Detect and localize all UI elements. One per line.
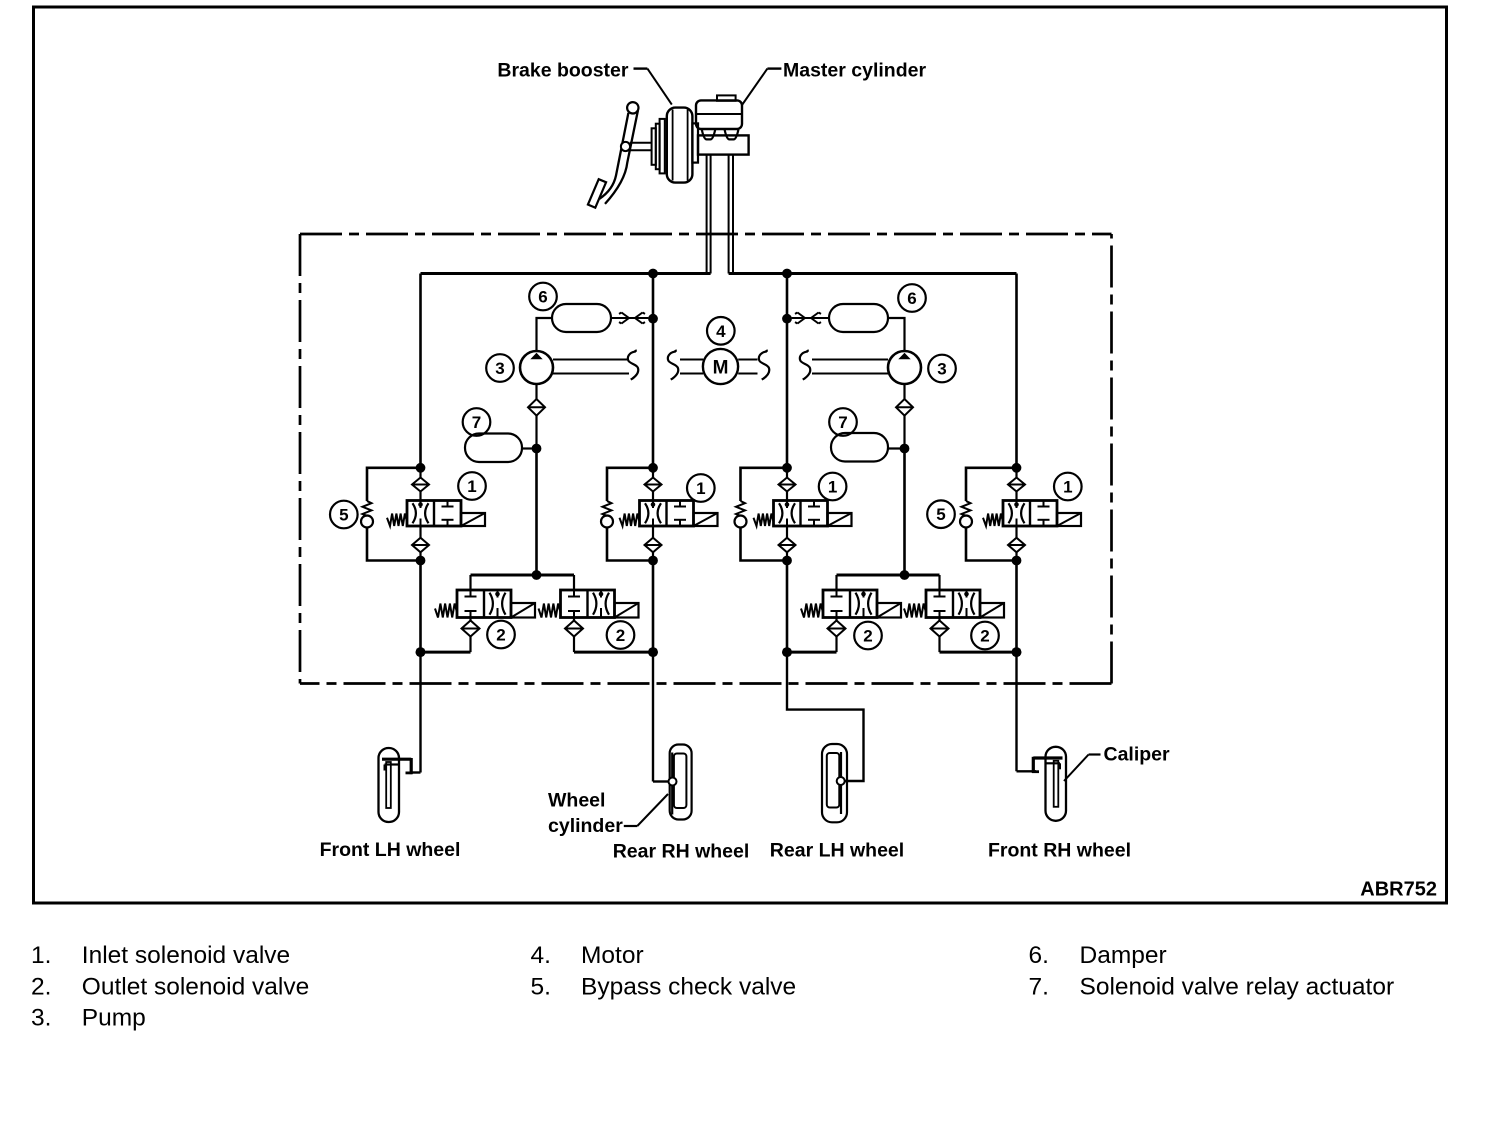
brake booster — [652, 108, 698, 183]
inlet solenoid valve (1) Front RH body — [983, 501, 1081, 527]
ref (2) a — [487, 621, 515, 649]
bypass check valve (5) Rear RH branch — [601, 468, 653, 561]
master cylinder body — [698, 130, 749, 155]
label: Rear LH wheel — [770, 840, 904, 862]
svg-text:Master cylinder: Master cylinder — [783, 60, 926, 82]
wire: Front RH to caliper — [1017, 652, 1037, 771]
svg-text:6.: 6. — [1029, 942, 1049, 969]
svg-text:Front RH wheel: Front RH wheel — [988, 840, 1131, 862]
ref (1) Front RH — [1054, 473, 1082, 501]
damper (6) right — [792, 304, 888, 332]
Front LH wheel with caliper — [379, 748, 413, 822]
outlet solenoid valve (2) Front RH top branch — [905, 575, 940, 590]
motor shaft left segment — [553, 351, 703, 380]
ref (5) left — [330, 501, 358, 529]
wire: secondary circuit supply header — [729, 269, 1017, 279]
ref (2) d — [971, 622, 999, 650]
outlet solenoid valve (2) Front LH top branch — [471, 575, 537, 590]
svg-text:6: 6 — [907, 289, 916, 308]
svg-text:4.: 4. — [531, 942, 551, 969]
outlet solenoid valve (2) Rear RH bottom branch with filter — [565, 618, 658, 657]
filter bottom Rear LH — [779, 526, 796, 565]
master cylinder reservoir — [696, 95, 742, 129]
filter bottom Rear RH — [645, 526, 662, 565]
ref (6) right — [898, 284, 926, 312]
outlet solenoid valve (2) Rear LH bottom branch with filter — [782, 618, 845, 657]
svg-text:3: 3 — [937, 360, 946, 379]
wire: Rear LH to wheel cylinder — [787, 652, 864, 781]
svg-text:Rear RH wheel: Rear RH wheel — [613, 841, 750, 863]
label: Master cylinder — [742, 60, 926, 106]
filter bottom Front LH — [412, 526, 429, 565]
damper (6) left — [552, 304, 648, 332]
ref (1) Front LH — [458, 472, 486, 500]
wire: Rear RH below inlet — [648, 561, 658, 657]
svg-text:2: 2 — [863, 627, 872, 646]
svg-text:2: 2 — [616, 626, 625, 645]
pump (3) left — [520, 351, 553, 384]
svg-text:1: 1 — [696, 479, 705, 498]
ref (4) — [707, 317, 735, 345]
ABS actuator unit boundary (dash-dot box) — [300, 234, 1112, 684]
svg-text:cylinder: cylinder — [548, 815, 623, 837]
label: Front LH wheel — [320, 839, 461, 861]
wire: Front LH to caliper — [412, 652, 421, 772]
figure code ABR752 — [1360, 879, 1437, 901]
master cylinder outlet pipes — [707, 155, 733, 274]
svg-text:6: 6 — [538, 288, 547, 307]
inlet solenoid valve (1) Front RH: node junction top — [1012, 463, 1022, 473]
inlet solenoid valve (1) Front LH body — [387, 501, 485, 527]
outlet solenoid valve (2) Front RH bottom branch with filter — [931, 618, 1022, 657]
ref (7) right — [829, 408, 857, 436]
label: Caliper — [1064, 744, 1170, 782]
brake pedal — [588, 102, 639, 208]
ref (3) left — [486, 354, 514, 382]
push rod — [630, 143, 652, 151]
svg-text:7: 7 — [472, 413, 481, 432]
label: Brake booster — [497, 60, 671, 105]
bypass check valve (5) Front RH branch — [960, 468, 1017, 561]
ref (2) c — [854, 622, 882, 650]
svg-text:Bypass check valve: Bypass check valve — [581, 973, 796, 1000]
ref (2) b — [607, 621, 635, 649]
svg-text:7.: 7. — [1029, 973, 1049, 1000]
svg-text:Wheel: Wheel — [548, 790, 605, 812]
svg-text:3: 3 — [495, 359, 504, 378]
Front RH wheel with caliper — [1032, 747, 1066, 821]
ref (1) Rear LH — [819, 473, 847, 501]
Rear RH wheel with wheel cylinder — [669, 745, 692, 820]
wire: Front RH wheel line — [1015, 274, 1018, 468]
ref (1) Rear RH — [687, 474, 715, 502]
svg-text:M: M — [713, 358, 729, 379]
border frame — [34, 7, 1447, 903]
outlet solenoid valve (2) Front LH bottom branch with filter — [416, 618, 480, 657]
inlet solenoid valve (1) Rear RH: node junction top — [648, 463, 658, 473]
motor (4) M — [703, 349, 738, 384]
solenoid valve relay actuator (7) left reservoir — [465, 434, 541, 463]
svg-text:Brake booster: Brake booster — [497, 60, 629, 82]
filter top Rear LH — [779, 468, 796, 501]
svg-text:Solenoid valve relay actuator: Solenoid valve relay actuator — [1080, 973, 1395, 1000]
outlet solenoid valve (2) Rear LH body — [801, 590, 901, 618]
svg-text:Damper: Damper — [1080, 942, 1167, 969]
wire: primary circuit supply header — [421, 269, 711, 279]
svg-text:4: 4 — [716, 322, 726, 341]
label: Wheel cylinder — [548, 790, 668, 838]
legend — [31, 942, 1394, 1032]
Rear LH wheel with wheel cylinder — [822, 744, 847, 822]
svg-text:2.: 2. — [31, 973, 51, 1000]
wire: damper to pump left — [537, 318, 553, 351]
filter top Front RH — [1008, 468, 1025, 501]
wire: Rear LH wheel line — [782, 274, 792, 468]
pump outlet check valve right — [896, 384, 913, 449]
svg-text:Motor: Motor — [581, 942, 644, 969]
inlet solenoid valve (1) Rear RH body — [620, 501, 718, 527]
inlet solenoid valve (1) Rear LH: node junction top — [782, 463, 792, 473]
svg-text:Rear LH wheel: Rear LH wheel — [770, 840, 904, 862]
pump outlet check valve left — [528, 384, 545, 449]
svg-text:Front LH wheel: Front LH wheel — [320, 839, 461, 861]
wire: Rear RH wheel line — [648, 274, 658, 468]
wire: Rear LH below inlet — [782, 561, 792, 657]
svg-text:2: 2 — [496, 626, 505, 645]
motor shaft right segment — [738, 351, 888, 380]
svg-text:5: 5 — [936, 505, 945, 524]
svg-text:Outlet solenoid valve: Outlet solenoid valve — [82, 973, 309, 1000]
filter top Front LH — [412, 468, 429, 501]
svg-text:5: 5 — [339, 506, 348, 525]
ref (6) left — [529, 283, 557, 311]
svg-text:ABR752: ABR752 — [1360, 879, 1437, 901]
outlet solenoid valve (2) Front LH body — [435, 590, 535, 618]
bypass check valve (5) Rear LH branch — [735, 468, 788, 561]
svg-text:2: 2 — [980, 627, 989, 646]
ref (7) left — [463, 408, 491, 436]
wire: Rear RH to wheel cylinder — [653, 652, 669, 781]
inlet solenoid valve (1) Front LH: node junction top — [416, 463, 426, 473]
wire: Front LH wheel line — [419, 274, 422, 468]
svg-text:1: 1 — [467, 477, 476, 496]
wire: damper to pump right — [888, 318, 905, 351]
label: Front RH wheel — [988, 840, 1131, 862]
svg-text:7: 7 — [838, 413, 847, 432]
wire: pump suction line left — [532, 449, 542, 580]
svg-text:Caliper: Caliper — [1104, 744, 1171, 766]
label: Rear RH wheel — [613, 841, 750, 863]
outlet solenoid valve (2) Front RH body — [904, 590, 1004, 618]
ref (5) right — [927, 500, 955, 528]
filter top Rear RH — [645, 468, 662, 501]
wire: Front LH below inlet — [416, 561, 426, 657]
svg-text:Inlet solenoid valve: Inlet solenoid valve — [82, 942, 290, 969]
inlet solenoid valve (1) Rear LH body — [754, 501, 852, 527]
outlet solenoid valve (2) Rear RH top branch — [537, 575, 575, 590]
pump (3) right — [888, 351, 921, 384]
svg-text:1.: 1. — [31, 942, 51, 969]
wire: pump suction line right — [900, 449, 910, 580]
svg-text:5.: 5. — [531, 973, 551, 1000]
outlet solenoid valve (2) Rear RH body — [539, 590, 639, 618]
filter bottom Front RH — [1008, 526, 1025, 565]
svg-text:1: 1 — [1063, 478, 1072, 497]
outlet solenoid valve (2) Rear LH top branch — [837, 575, 905, 590]
svg-text:Pump: Pump — [82, 1005, 146, 1032]
svg-text:1: 1 — [828, 478, 837, 497]
bypass check valve (5) Front LH branch — [361, 468, 421, 561]
wire: Front RH below inlet — [1012, 561, 1022, 657]
solenoid valve relay actuator (7) right reservoir — [831, 433, 909, 462]
ref (3) right — [928, 355, 956, 383]
svg-text:3.: 3. — [31, 1005, 51, 1032]
